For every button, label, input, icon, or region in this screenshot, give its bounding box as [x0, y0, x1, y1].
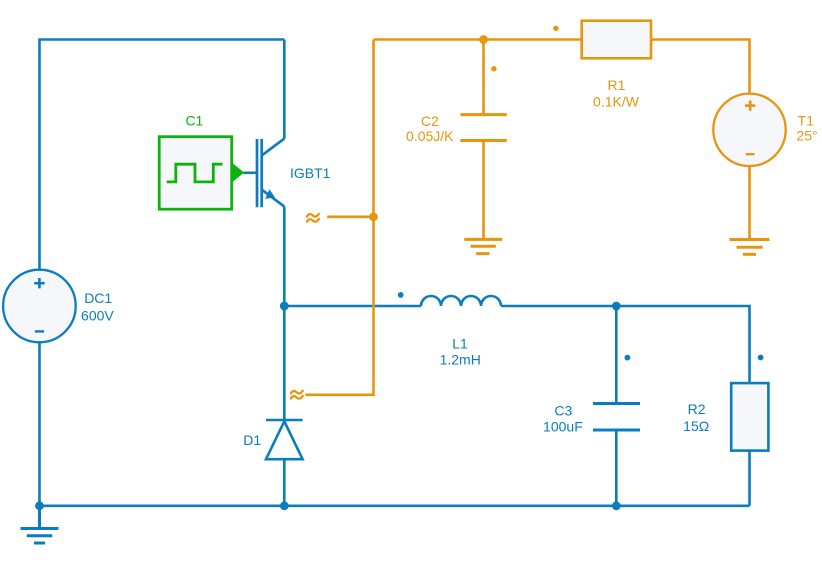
thermal port symbol IGBT — [307, 214, 319, 222]
svg-text:D1: D1 — [243, 432, 261, 448]
node junction D1 bottom — [280, 501, 289, 510]
source T1 — [713, 94, 785, 166]
thermal port symbol D1 — [291, 391, 303, 399]
svg-text:R1: R1 — [608, 77, 626, 93]
wire thermal top rail — [374, 38, 582, 41]
wire C2 top stem — [482, 40, 485, 115]
diode D1 — [266, 419, 303, 422]
node junction C3 top — [612, 302, 621, 311]
svg-text:L1: L1 — [452, 335, 468, 351]
pulse source C1 — [159, 137, 232, 210]
svg-text:1.2mH: 1.2mH — [440, 352, 481, 368]
svg-text:DC1: DC1 — [84, 290, 112, 306]
wire gate — [244, 172, 257, 175]
wire bottom rail — [40, 504, 750, 507]
wire L1 to right rail — [501, 306, 750, 383]
node junction thermal IGBT tap — [369, 212, 378, 221]
wire node to L1 — [284, 305, 421, 308]
transistor IGBT1 — [257, 139, 284, 208]
node junction L1 tap — [280, 302, 289, 311]
ground T1 — [730, 240, 770, 255]
wire R1 right to T1 — [651, 40, 750, 95]
svg-text:T1: T1 — [798, 113, 815, 129]
svg-text:25°: 25° — [796, 127, 817, 143]
resistor R2 — [731, 383, 768, 451]
probe dot R1 — [553, 26, 558, 31]
wire DC1 bottom to ground rail — [38, 343, 41, 506]
svg-text:100uF: 100uF — [543, 418, 583, 434]
capacitor C2 — [460, 115, 506, 141]
voltage source DC1 — [3, 270, 76, 343]
wire C3 bottom stem — [615, 430, 618, 506]
ground main — [21, 506, 59, 543]
probe dot R2 — [758, 355, 764, 361]
probe dot C3 — [625, 355, 631, 361]
svg-text:0.05J/K: 0.05J/K — [406, 128, 454, 144]
wire C3 top stem — [615, 306, 618, 404]
svg-text:IGBT1: IGBT1 — [290, 165, 331, 181]
wire IGBT collector — [283, 40, 286, 139]
svg-text:C1: C1 — [185, 112, 203, 128]
node junction C3 bottom — [612, 501, 621, 510]
probe dot C2 — [491, 66, 496, 71]
resistor R1 — [582, 21, 651, 59]
capacitor C3 — [593, 404, 640, 431]
wire top rail blue — [40, 40, 285, 271]
probe dot L1 — [398, 292, 404, 298]
wire IGBT emitter to node — [283, 207, 286, 421]
svg-text:15Ω: 15Ω — [683, 418, 709, 434]
wire D1 anode to bottom rail — [283, 459, 286, 506]
arrow C1 output — [232, 163, 245, 183]
svg-text:600V: 600V — [81, 308, 114, 324]
wire C2 bottom stem — [482, 141, 485, 239]
wire T1 bottom — [748, 166, 751, 238]
wire R2 bottom — [748, 451, 751, 506]
wire thermal IGBT tap — [327, 216, 373, 219]
svg-text:C2: C2 — [421, 113, 439, 129]
inductor L1 — [421, 296, 501, 306]
node junction ground left — [35, 501, 44, 510]
svg-text:C3: C3 — [554, 403, 572, 419]
wire thermal vertical — [305, 40, 373, 395]
node junction thermal C2 — [479, 35, 488, 44]
ground C2 — [464, 239, 502, 253]
svg-text:R2: R2 — [688, 401, 706, 417]
svg-text:0.1K/W: 0.1K/W — [593, 94, 640, 110]
